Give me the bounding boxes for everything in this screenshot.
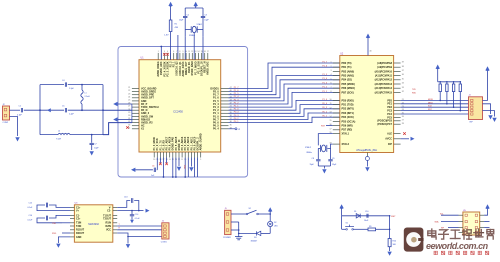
- svg-text:37: 37: [402, 70, 404, 72]
- svg-text:4: 4: [167, 51, 168, 53]
- resistors R5-R8: [439, 82, 462, 111]
- svg-text:RST: RST: [391, 216, 396, 218]
- svg-text:0.1uF: 0.1uF: [135, 218, 141, 220]
- U5 input wires: [441, 214, 459, 216]
- J5 pin wires: [231, 213, 246, 215]
- svg-text:MISO: MISO: [428, 102, 433, 104]
- filter left vertical wire: [39, 85, 41, 135]
- svg-text:(A9)PC1/PA9: (A9)PC1/PA9: [377, 66, 392, 69]
- resistor R1: [169, 20, 172, 32]
- svg-text:PB2 (AIN0): PB2 (AIN0): [342, 70, 355, 73]
- J4 VCC wire: [483, 71, 488, 101]
- filter top wire with capacitor C4: [40, 84, 64, 86]
- no-connect mark U2 right: [403, 132, 406, 135]
- junction dots on box bottom: [163, 176, 165, 178]
- svg-text:COM1: COM1: [161, 242, 168, 244]
- svg-text:C6: C6: [152, 165, 154, 167]
- reset right branch: [389, 216, 391, 239]
- VCC port power: [268, 207, 272, 211]
- svg-text:PD3 (INT1): PD3 (INT1): [342, 112, 355, 115]
- svg-text:35: 35: [230, 124, 232, 126]
- svg-text:D1: D1: [354, 211, 356, 213]
- U2 right pins group2: [377, 99, 403, 126]
- svg-text:14: 14: [330, 116, 332, 118]
- wire RF_P filter to U1: [103, 109, 132, 111]
- svg-text:TXD: TXD: [52, 223, 57, 225]
- svg-text:ATmega8515L_8AU: ATmega8515L_8AU: [356, 149, 377, 152]
- svg-text:34: 34: [402, 83, 404, 85]
- wire J2 pin1: [10, 109, 21, 111]
- svg-text:27: 27: [128, 106, 130, 108]
- power port VCC above crystal: [194, 2, 198, 6]
- U5 left pins: [459, 214, 468, 233]
- svg-text:11: 11: [188, 51, 190, 53]
- wire LED to diode: [261, 232, 270, 234]
- svg-text:PB4 (SS): PB4 (SS): [342, 79, 352, 82]
- svg-text:P0_4: P0_4: [213, 128, 219, 131]
- svg-text:XTAL2: XTAL2: [305, 146, 312, 149]
- EEPROM U5 body: [463, 212, 480, 235]
- wire C1 to filter: [24, 109, 40, 111]
- svg-text:S2: S2: [249, 208, 251, 210]
- wire R1 to U1 pin: [170, 32, 172, 60]
- crystal Y2 8MHz: [318, 147, 320, 149]
- svg-text:PD4 (XCK): PD4 (XCK): [342, 116, 354, 119]
- svg-text:L1: L1: [85, 93, 87, 95]
- svg-text:C14: C14: [135, 214, 138, 216]
- svg-text:R2OUT: R2OUT: [76, 232, 85, 235]
- U2 right pins group1: [375, 62, 404, 95]
- U2 left pins group2: [330, 99, 356, 132]
- ISP net labels: [428, 99, 433, 111]
- crystal subcircuit top wire: [185, 7, 203, 9]
- U2 left pins group1: [331, 62, 355, 95]
- no-connect marks bottom pins: [159, 163, 162, 166]
- inductor L1: [81, 85, 83, 90]
- svg-text:32: 32: [402, 91, 404, 93]
- svg-text:5: 5: [200, 159, 201, 161]
- svg-text:24: 24: [128, 96, 130, 98]
- capacitor C7 to ground: [91, 134, 93, 136]
- port arrow on middle wire: [47, 108, 51, 112]
- svg-text:SCL: SCL: [440, 213, 444, 215]
- capacitor C14: [131, 211, 133, 215]
- no-connect mark left: [126, 126, 129, 129]
- wire DCOUPL: [177, 35, 179, 60]
- svg-text:C16: C16: [29, 215, 32, 217]
- svg-text:1: 1: [331, 62, 332, 64]
- U1 left pin tie bus: [131, 104, 133, 123]
- svg-text:6: 6: [173, 51, 174, 53]
- svg-text:11: 11: [330, 103, 332, 105]
- svg-text:XTAL2: XTAL2: [342, 143, 350, 146]
- antenna connector J2: [3, 106, 10, 120]
- crystal Y1 32MHz: [185, 29, 191, 31]
- ISP connector J4: [469, 97, 483, 120]
- svg-text:13: 13: [330, 112, 332, 114]
- wire RF_N filter to U1: [103, 123, 132, 135]
- svg-text:T2IN: T2IN: [76, 225, 81, 228]
- svg-text:C1: C1: [19, 106, 21, 108]
- svg-text:1N4007: 1N4007: [251, 241, 258, 243]
- capacitor C8: [317, 148, 319, 159]
- MCU U2 body: [340, 56, 394, 153]
- U3 ground wire: [58, 237, 70, 243]
- U3 right pins: [103, 206, 117, 233]
- svg-text:AVDD_ADC: AVDD_ADC: [207, 61, 210, 75]
- svg-text:C15: C15: [29, 203, 32, 205]
- U5 right wires: [484, 221, 489, 223]
- svg-text:38: 38: [402, 66, 404, 68]
- main IC U1 CC2430 body: [139, 60, 221, 152]
- reset left branch: [341, 216, 343, 230]
- svg-text:6: 6: [331, 83, 332, 85]
- svg-text:C10: C10: [365, 211, 368, 213]
- svg-text:VCC: VCC: [106, 229, 111, 232]
- U2 bottom ground pin: [366, 153, 368, 157]
- svg-text:VDD: VDD: [185, 164, 187, 169]
- svg-text:MOSI: MOSI: [428, 99, 433, 101]
- capacitor C13 loop: [117, 201, 130, 208]
- svg-text:12: 12: [330, 107, 332, 109]
- svg-text:POWER: POWER: [223, 237, 231, 239]
- svg-text:RXD: RXD: [52, 233, 57, 235]
- svg-text:30: 30: [128, 115, 130, 117]
- svg-text:35: 35: [402, 78, 404, 80]
- svg-text:D2: D2: [274, 222, 276, 224]
- watermark logo box: [404, 228, 424, 252]
- power connector J5: [225, 210, 231, 234]
- svg-text:CC2430: CC2430: [173, 109, 183, 113]
- U2 VCC power port: [366, 34, 370, 38]
- RF section boundary box: [118, 47, 248, 178]
- svg-text:4: 4: [331, 74, 332, 76]
- svg-text:15: 15: [169, 159, 171, 161]
- svg-text:2.2pF: 2.2pF: [69, 113, 75, 115]
- svg-text:C2-: C2-: [107, 210, 111, 213]
- ground port COM: [126, 244, 130, 248]
- svg-text:R10: R10: [393, 241, 396, 243]
- svg-text:39: 39: [402, 62, 404, 64]
- power arrow U2 AVCC: [401, 138, 409, 140]
- crystal ground wire: [318, 165, 330, 167]
- RS232 IC U3 body: [74, 205, 112, 242]
- svg-text:C7: C7: [94, 144, 96, 146]
- power port arrows down: [177, 167, 181, 171]
- resistor pack top wire: [438, 81, 461, 83]
- switch S2: [246, 213, 248, 215]
- svg-text:26: 26: [402, 116, 404, 118]
- svg-text:(A11)PC3/PA11: (A11)PC3/PA11: [375, 75, 393, 78]
- svg-text:PD1 (TXD): PD1 (TXD): [342, 104, 354, 107]
- svg-text:S1: S1: [346, 223, 348, 225]
- ground port below U2: [365, 167, 369, 171]
- svg-text:L2: L2: [58, 131, 60, 133]
- svg-text:AVDD_GUARD: AVDD_GUARD: [200, 133, 203, 150]
- svg-text:16: 16: [330, 124, 332, 126]
- svg-text:2.2nH: 2.2nH: [85, 96, 91, 98]
- svg-text:T2OUT: T2OUT: [103, 218, 111, 221]
- svg-text:0.1uF: 0.1uF: [28, 220, 34, 222]
- svg-text:XTAL1: XTAL1: [197, 23, 203, 26]
- J4 ground wires: [483, 104, 491, 114]
- U1 bottom pins: [153, 133, 203, 161]
- LED D2: [268, 221, 273, 226]
- VCC port right of U3: [139, 210, 144, 212]
- svg-text:22: 22: [128, 90, 130, 92]
- svg-text:17: 17: [207, 51, 209, 53]
- ground port below crystal: [322, 169, 326, 173]
- resistor R9: [368, 228, 376, 231]
- decoupling port arrow left: [131, 168, 135, 172]
- svg-text:12: 12: [191, 51, 193, 53]
- U3 to COM wires: [117, 225, 162, 227]
- wire bundle between U1 and U2: [229, 63, 340, 123]
- svg-text:C13: C13: [124, 197, 127, 199]
- svg-text:2: 2: [331, 66, 332, 68]
- diode D3: [256, 231, 260, 235]
- U1 top pins: [157, 51, 210, 77]
- svg-text:PB1 (T1): PB1 (T1): [342, 66, 352, 69]
- watermark logo C glyph: [406, 232, 421, 247]
- wires U1 bottom pins down: [157, 158, 197, 178]
- svg-text:C9: C9: [332, 158, 334, 160]
- port arrow RF out: [113, 117, 117, 121]
- U1 right pins: [210, 87, 231, 131]
- svg-text:23: 23: [128, 93, 130, 95]
- svg-text:MAX3232: MAX3232: [88, 223, 99, 226]
- svg-text:33: 33: [402, 87, 404, 89]
- svg-text:(POSC1)PC7: (POSC1)PC7: [377, 123, 392, 126]
- wire J2 pin2 to ground: [10, 117, 18, 137]
- svg-text:36: 36: [402, 74, 404, 76]
- svg-text:CON2: CON2: [3, 122, 9, 124]
- svg-text:9: 9: [183, 51, 184, 53]
- svg-text:10: 10: [330, 99, 332, 101]
- svg-text:GND: GND: [76, 236, 82, 239]
- svg-text:15: 15: [330, 120, 332, 122]
- svg-text:LED: LED: [274, 226, 278, 228]
- U2 left pins XTAL: [330, 132, 350, 146]
- U1 left pins: [128, 87, 158, 131]
- power port VCC above R1: [168, 2, 172, 6]
- ground wire COM: [127, 236, 129, 238]
- filter middle wire with capacitor C5: [40, 109, 64, 111]
- wire XTAL2 to crystal: [327, 144, 332, 148]
- net RXD wire: [62, 232, 70, 234]
- svg-text:(A10)PC2/PA10: (A10)PC2/PA10: [375, 70, 393, 73]
- diode D1: [356, 214, 360, 218]
- svg-text:ALE: ALE: [387, 133, 392, 136]
- bundle net labels right: [322, 61, 328, 117]
- filter bottom wire with inductor L2: [40, 134, 58, 136]
- capacitor C6: [153, 168, 155, 172]
- capacitor C1: [20, 108, 22, 112]
- svg-text:14: 14: [198, 51, 200, 53]
- svg-text:PB7 (SCK): PB7 (SCK): [342, 91, 354, 94]
- svg-text:3: 3: [331, 70, 332, 72]
- U2 right pins misc: [385, 133, 400, 147]
- ground port below J2: [15, 137, 19, 141]
- svg-text:PD7 (RD): PD7 (RD): [342, 129, 353, 132]
- svg-text:C4: C4: [62, 80, 64, 82]
- svg-text:RXD: RXD: [412, 92, 417, 94]
- svg-text:C5: C5: [62, 106, 64, 108]
- svg-text:eeworld.com.cn: eeworld.com.cn: [426, 241, 489, 251]
- svg-text:28: 28: [402, 123, 404, 125]
- U5 right pins: [475, 214, 484, 233]
- svg-text:0.1uF: 0.1uF: [28, 207, 34, 209]
- svg-text:25: 25: [128, 100, 130, 102]
- resistor R10: [388, 239, 391, 247]
- svg-text:ICP: ICP: [388, 143, 392, 146]
- port arrow RF in: [113, 102, 117, 106]
- svg-text:27: 27: [402, 119, 404, 121]
- svg-text:8: 8: [331, 91, 332, 93]
- VCC port reset circuit: [339, 204, 343, 208]
- capacitor C9: [330, 148, 332, 159]
- capacitor C2: [184, 8, 186, 16]
- svg-text:1: 1: [158, 51, 159, 53]
- capacitor C3: [202, 8, 204, 16]
- svg-text:3: 3: [164, 51, 165, 53]
- no-connect circle JP: [229, 128, 236, 130]
- svg-text:2.2pF: 2.2pF: [69, 88, 75, 90]
- reset top wire: [342, 215, 390, 217]
- svg-text:17: 17: [330, 128, 332, 130]
- svg-text:C3: C3: [204, 15, 206, 17]
- no-connect marks on U1 top pins: [163, 53, 166, 56]
- svg-text:PD6 (WR): PD6 (WR): [342, 125, 353, 128]
- capacitor C15 loop: [49, 205, 70, 207]
- svg-text:C2+: C2+: [76, 218, 81, 221]
- svg-text:(A13)PC5/PA13: (A13)PC5/PA13: [375, 83, 393, 86]
- svg-text:5: 5: [331, 78, 332, 80]
- svg-text:PB3 (AIN1): PB3 (AIN1): [342, 75, 355, 78]
- watermark slogan text (tiny hanzi as marks): [434, 251, 489, 254]
- net label RST to U2: [326, 125, 333, 127]
- svg-text:(A12)PC4/PA12: (A12)PC4/PA12: [375, 79, 393, 82]
- svg-text:1_8V: 1_8V: [164, 35, 169, 37]
- svg-text:13: 13: [194, 51, 196, 53]
- ground port below U3: [56, 244, 60, 248]
- svg-text:29: 29: [128, 112, 130, 114]
- earth ground power: [238, 222, 240, 237]
- push button S1: [342, 228, 346, 230]
- svg-text:7: 7: [176, 51, 177, 53]
- svg-text:PB6 (MISO): PB6 (MISO): [342, 87, 355, 90]
- U3 left pins: [70, 206, 85, 239]
- svg-text:40: 40: [370, 50, 372, 52]
- svg-text:C2: C2: [187, 15, 189, 17]
- svg-text:C8: C8: [312, 158, 314, 160]
- svg-text:R2IN: R2IN: [106, 225, 112, 228]
- svg-text:16: 16: [204, 51, 206, 53]
- svg-text:(A8)PC0/PA8: (A8)PC0/PA8: [377, 62, 392, 65]
- svg-text:XTAL1: XTAL1: [342, 133, 350, 136]
- svg-text:PD2 (INT0): PD2 (INT0): [342, 108, 355, 111]
- net TXD wire: [62, 222, 70, 224]
- VCC port above resistor pack: [436, 65, 440, 69]
- svg-text:7: 7: [331, 87, 332, 89]
- svg-text:(A15)PC7/PA15: (A15)PC7/PA15: [375, 91, 393, 94]
- svg-text:PB5 (MOSI): PB5 (MOSI): [342, 83, 355, 86]
- watermark title text (hanzi drawn as strokes): [428, 229, 494, 239]
- bundle net labels left: [234, 87, 240, 123]
- wire top pin to box: [160, 47, 162, 60]
- svg-text:D3: D3: [254, 237, 256, 239]
- U5 VCC wire: [484, 209, 487, 216]
- svg-text:TXD: TXD: [412, 89, 416, 91]
- svg-text:20: 20: [153, 159, 155, 161]
- svg-text:R9: R9: [369, 226, 371, 228]
- svg-text:11: 11: [181, 159, 183, 161]
- svg-text:7.5nH: 7.5nH: [56, 138, 62, 140]
- serial connector J6: [162, 223, 169, 239]
- wire crystal legs to U1: [184, 37, 186, 60]
- svg-text:PD5 (OC1A): PD5 (OC1A): [342, 120, 356, 123]
- svg-text:AVCC: AVCC: [385, 138, 392, 141]
- ground port below C7: [90, 151, 94, 155]
- capacitor C16 loop: [49, 215, 70, 218]
- svg-text:PB0 (T0): PB0 (T0): [342, 62, 352, 65]
- capacitor C10: [366, 214, 368, 218]
- svg-text:8: 8: [179, 51, 180, 53]
- wire XTAL1 to crystal: [318, 134, 333, 146]
- filter right vertical wire: [102, 85, 104, 135]
- svg-text:15: 15: [201, 51, 203, 53]
- svg-text:PD0 (RXD): PD0 (RXD): [342, 99, 354, 102]
- svg-text:21: 21: [128, 87, 130, 89]
- svg-text:(A14)PC6/PA14: (A14)PC6/PA14: [375, 87, 393, 90]
- ground port reset: [387, 252, 391, 256]
- ISP wires: [401, 100, 469, 112]
- svg-text:8MHz: 8MHz: [307, 152, 312, 154]
